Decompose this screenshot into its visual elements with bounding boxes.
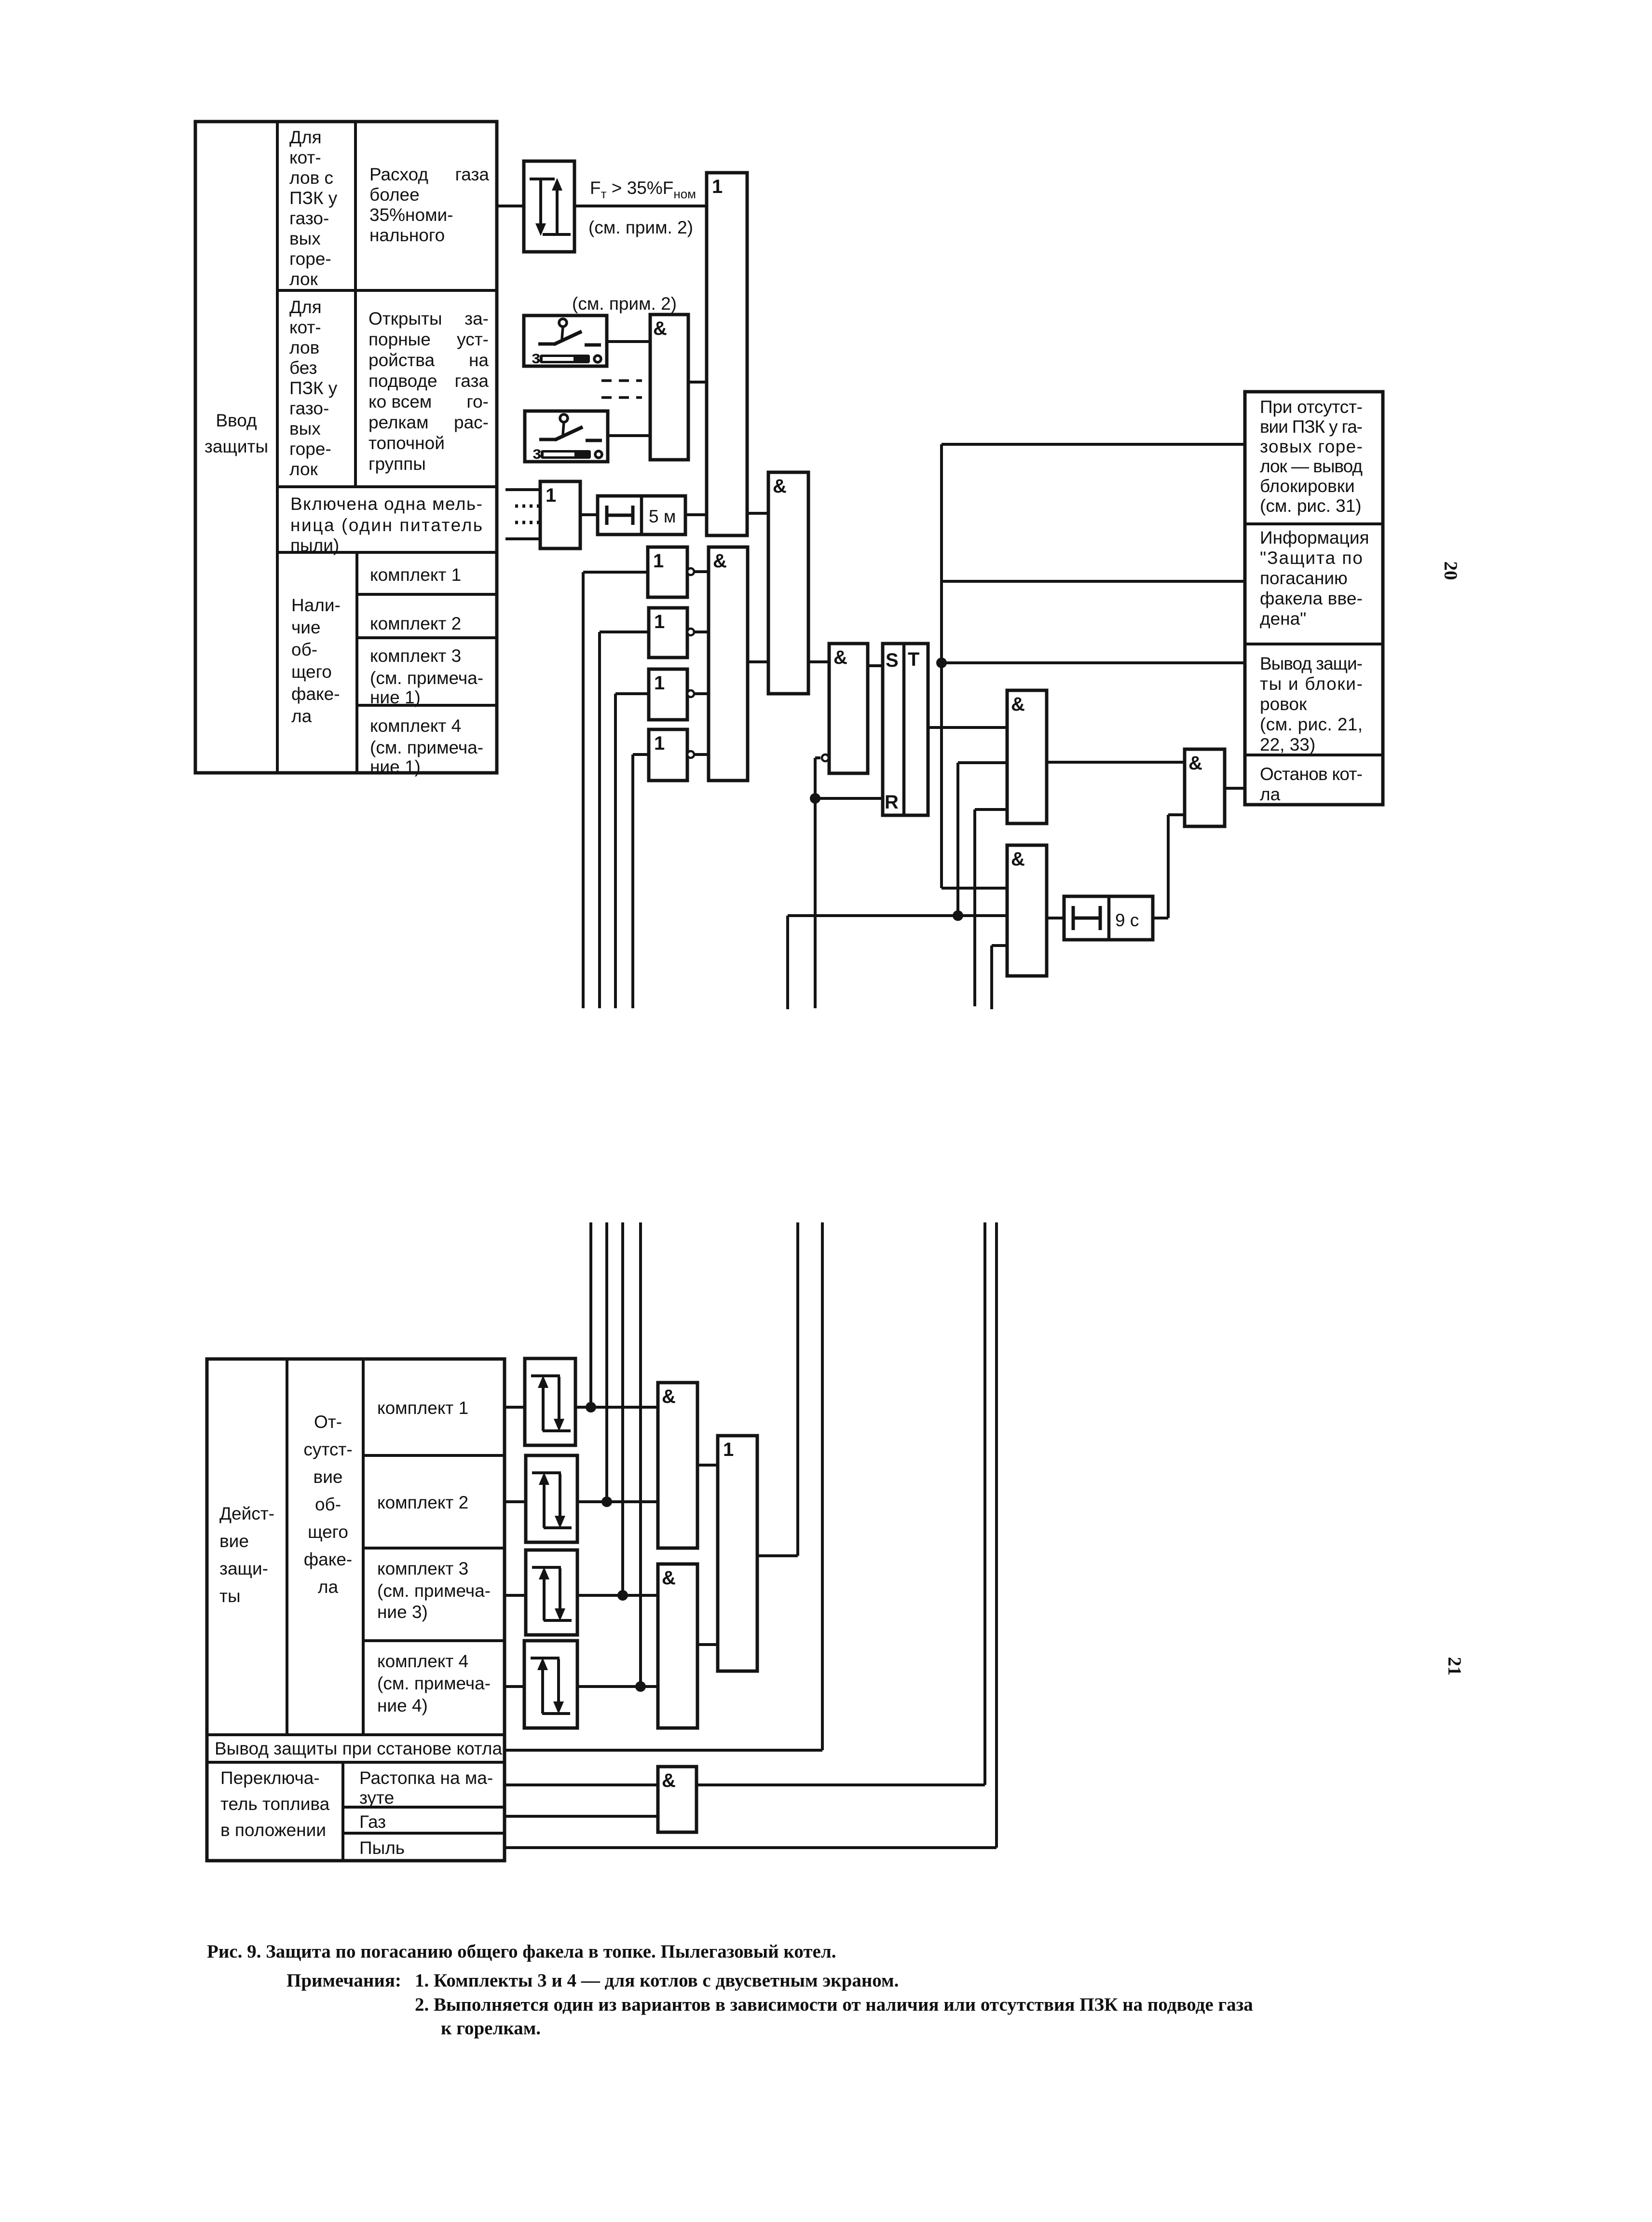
hysteresis element H3 (flame absence) bbox=[526, 1550, 577, 1635]
svg-text:погасанию: погасанию bbox=[1260, 568, 1348, 588]
wire: inhibit net to D7 bubble and R input bbox=[810, 758, 883, 1008]
svg-text:ние 1): ние 1) bbox=[370, 757, 421, 777]
inverter bubble D4.2 bbox=[687, 629, 694, 635]
svg-text:уст-: уст- bbox=[457, 329, 489, 349]
svg-text:газа: газа bbox=[455, 371, 489, 391]
wire: D11 to OR D13 bbox=[697, 1464, 718, 1467]
wire: H1 output with riser to page 20 bbox=[575, 1222, 658, 1413]
svg-text:вие: вие bbox=[219, 1531, 249, 1551]
timer DT2 (9 с delay) bbox=[1064, 896, 1153, 940]
svg-text:Дейст-: Дейст- bbox=[219, 1504, 274, 1523]
valve limit switch SW2 (запорное устройство) bbox=[525, 411, 608, 463]
svg-text:комплект 1: комплект 1 bbox=[370, 565, 461, 585]
wire: flame set 1 net riser bbox=[583, 572, 648, 1008]
wire: flame set 4 net riser bbox=[633, 754, 649, 1008]
wire: Пыль riser to page 20 bbox=[505, 1222, 997, 1848]
wire: D6 output to AND D7 bbox=[808, 660, 829, 663]
svg-text:"Защита по: "Защита по bbox=[1260, 548, 1363, 568]
svg-text:более: более bbox=[369, 185, 420, 205]
wire: hysteresis output to OR gate D1 bbox=[574, 205, 707, 207]
svg-text:R: R bbox=[885, 792, 899, 813]
svg-text:(см. примеча-: (см. примеча- bbox=[377, 1581, 491, 1601]
svg-text:T: T bbox=[908, 649, 919, 670]
wire: комплект 4 to hysteresis bbox=[505, 1685, 524, 1688]
svg-text:5 м: 5 м bbox=[649, 507, 676, 526]
wire: SW2 to AND gate D2 bbox=[607, 434, 650, 437]
wire: D4.3 to AND D5 bbox=[694, 692, 709, 695]
svg-text:го-: го- bbox=[466, 392, 489, 411]
svg-text:Ввод: Ввод bbox=[216, 411, 257, 430]
svg-text:1: 1 bbox=[654, 611, 665, 632]
svg-text:(см. примеча-: (см. примеча- bbox=[370, 668, 483, 688]
AND gate D2 (all valves open) bbox=[650, 315, 688, 460]
wire: Растопка на мазуте to AND D14 bbox=[505, 1783, 658, 1786]
wire: mill-running inputs to OR gate D3 bbox=[505, 490, 541, 539]
wire: H2 output with riser to page 20 bbox=[577, 1222, 658, 1507]
svg-text:Нали-: Нали- bbox=[291, 595, 341, 615]
OR gate D13 (1) bbox=[718, 1436, 757, 1671]
svg-text:21: 21 bbox=[1444, 1657, 1465, 1676]
svg-text:нального: нального bbox=[369, 225, 445, 245]
AND gate D9 bbox=[1007, 845, 1047, 976]
svg-text:защиты: защиты bbox=[205, 437, 268, 456]
wire: H4 output with riser to page 20 bbox=[577, 1222, 658, 1692]
NOT gate D4.4 (1) bbox=[649, 729, 687, 781]
AND gate D10 (boiler stop) bbox=[1185, 749, 1225, 826]
svg-text:ко всем: ко всем bbox=[369, 392, 432, 411]
svg-text:ройства: ройства bbox=[369, 350, 435, 370]
svg-text:35%номи-: 35%номи- bbox=[369, 205, 453, 225]
svg-text:Вывод защи-: Вывод защи- bbox=[1260, 654, 1363, 673]
svg-text:комплект 4: комплект 4 bbox=[377, 1651, 468, 1671]
valve limit switch SW1 (запорное устройство) bbox=[524, 315, 607, 367]
AND gate D6 bbox=[768, 472, 808, 694]
svg-text:комплект 4: комплект 4 bbox=[370, 716, 461, 736]
svg-text:комплект 2: комплект 2 bbox=[377, 1493, 468, 1512]
svg-text:S: S bbox=[886, 650, 899, 671]
wire: H3 output with riser to page 20 bbox=[577, 1222, 658, 1601]
inverter bubble on D7 lower input bbox=[822, 754, 829, 761]
svg-text:Информация: Информация bbox=[1260, 528, 1369, 548]
svg-text:ПЗК у: ПЗК у bbox=[289, 378, 338, 398]
svg-text:22, 33): 22, 33) bbox=[1260, 735, 1315, 754]
svg-text:&: & bbox=[833, 647, 847, 668]
wire: gas flow signal to hysteresis element bbox=[497, 205, 524, 207]
AND gate D11 (sets 1,2) bbox=[658, 1383, 697, 1548]
svg-text:комплект 1: комплект 1 bbox=[377, 1398, 468, 1418]
svg-text:топочной: топочной bbox=[369, 433, 445, 453]
svg-text:ПЗК у: ПЗК у bbox=[289, 188, 338, 208]
wire: Газ to AND D14 bbox=[505, 1815, 658, 1818]
svg-text:з: з bbox=[532, 347, 540, 367]
svg-text:(см. рис. 21,: (см. рис. 21, bbox=[1260, 714, 1363, 734]
svg-text:релкам: релкам bbox=[369, 412, 429, 432]
wire: D3 to timer 5м bbox=[580, 513, 598, 516]
svg-text:&: & bbox=[1188, 753, 1202, 774]
wire: D13 output riser to page 20 bbox=[757, 1222, 798, 1556]
svg-text:&: & bbox=[662, 1770, 676, 1791]
svg-text:рас-: рас- bbox=[454, 412, 489, 432]
wire: D12 to OR D13 bbox=[697, 1643, 718, 1646]
svg-text:подводе: подводе bbox=[369, 371, 437, 391]
svg-text:Для: Для bbox=[289, 297, 322, 317]
svg-text:1: 1 bbox=[546, 485, 556, 506]
svg-text:тель топлива: тель топлива bbox=[220, 1794, 330, 1814]
OR gate D3 (1, одна мельница) bbox=[540, 481, 580, 549]
svg-text:Пыль: Пыль bbox=[359, 1838, 405, 1858]
svg-text:лок: лок bbox=[289, 459, 318, 479]
svg-text:комплект 3: комплект 3 bbox=[377, 1559, 468, 1578]
wire: flame set 2 net riser bbox=[600, 632, 649, 1008]
svg-text:лок — вывод: лок — вывод bbox=[1260, 456, 1363, 476]
wire: D14 output riser to page 20 bbox=[696, 1222, 985, 1785]
svg-text:&: & bbox=[662, 1567, 676, 1589]
inverter bubble D4.1 bbox=[687, 568, 694, 575]
AND gate D12 (sets 3,4) bbox=[658, 1564, 697, 1728]
hysteresis element H2 (flame absence) bbox=[526, 1455, 577, 1542]
svg-text:в положении: в положении bbox=[220, 1820, 326, 1840]
wire: D8 output to AND D10 bbox=[1047, 761, 1185, 764]
svg-text:газо-: газо- bbox=[289, 398, 329, 418]
svg-text:&: & bbox=[653, 318, 667, 339]
svg-text:зуте: зуте bbox=[359, 1788, 394, 1808]
wire: trip net vertical with taps to message boxes bbox=[936, 444, 1245, 888]
AND gate D5 (no flame on all sets) bbox=[709, 547, 748, 781]
svg-text:дена": дена" bbox=[1260, 609, 1306, 629]
svg-text:лок: лок bbox=[289, 269, 318, 289]
svg-text:об-: об- bbox=[315, 1495, 341, 1514]
svg-text:9 с: 9 с bbox=[1115, 910, 1139, 930]
svg-text:ла: ла bbox=[318, 1577, 339, 1597]
svg-text:факе-: факе- bbox=[304, 1550, 353, 1569]
wire: комплект 1 to hysteresis bbox=[505, 1406, 525, 1409]
svg-text:Для: Для bbox=[289, 127, 322, 147]
svg-text:1: 1 bbox=[723, 1439, 734, 1460]
svg-text:Растопка на ма-: Растопка на ма- bbox=[359, 1768, 493, 1788]
svg-text:факе-: факе- bbox=[291, 684, 340, 704]
wire: dashed continuation marks (more valves) bbox=[601, 381, 642, 398]
wire: flame set 3 net riser bbox=[615, 694, 649, 1008]
wire: комплект 3 to hysteresis bbox=[505, 1594, 526, 1597]
svg-text:&: & bbox=[662, 1386, 676, 1407]
svg-text:вых: вых bbox=[289, 229, 321, 248]
svg-text:Вывод защиты при сстанове котл: Вывод защиты при сстанове котла bbox=[215, 1739, 502, 1758]
svg-text:кот-: кот- bbox=[289, 317, 321, 337]
svg-text:на: на bbox=[469, 350, 489, 370]
NOT gate D4.1 (1) bbox=[648, 547, 687, 597]
wire: D4.4 to AND D5 bbox=[694, 753, 709, 756]
svg-text:ла: ла bbox=[291, 706, 312, 726]
svg-text:к горелкам.: к горелкам. bbox=[441, 2018, 541, 2039]
wire: SW1 to AND gate D2 bbox=[607, 340, 650, 343]
svg-text:1: 1 bbox=[654, 733, 665, 754]
svg-text:2. Выполняется один из вариант: 2. Выполняется один из вариантов в завис… bbox=[415, 1994, 1253, 2015]
wire: T output to AND D8 bbox=[928, 726, 1007, 729]
svg-text:(см. примеча-: (см. примеча- bbox=[370, 738, 483, 757]
svg-text:комплект 3: комплект 3 bbox=[370, 646, 461, 666]
hysteresis threshold element H1 (расход газа) bbox=[524, 161, 574, 252]
svg-text:защи-: защи- bbox=[219, 1559, 268, 1578]
svg-text:щего: щего bbox=[308, 1522, 348, 1542]
svg-text:&: & bbox=[713, 550, 727, 572]
svg-text:без: без bbox=[289, 358, 317, 378]
svg-text:Останов кот-: Останов кот- bbox=[1260, 764, 1363, 784]
wire: D1 output to AND D6 bbox=[747, 512, 768, 515]
svg-text:&: & bbox=[1011, 849, 1025, 870]
wire: D9 output to timer 9с bbox=[1047, 917, 1064, 919]
svg-text:щего: щего bbox=[291, 662, 332, 682]
svg-text:сутст-: сутст- bbox=[303, 1440, 352, 1459]
svg-text:ровок: ровок bbox=[1260, 694, 1307, 714]
svg-text:вии ПЗК у га-: вии ПЗК у га- bbox=[1260, 417, 1363, 437]
svg-text:группы: группы bbox=[369, 454, 426, 474]
wire: Вывод защиты при останове котла riser bbox=[505, 1222, 822, 1750]
svg-text:1: 1 bbox=[712, 176, 723, 197]
svg-text:блокировки: блокировки bbox=[1260, 476, 1355, 496]
svg-text:вых: вых bbox=[289, 419, 321, 439]
svg-text:горе-: горе- bbox=[289, 439, 331, 459]
svg-text:лов с: лов с bbox=[289, 168, 333, 188]
svg-text:ты: ты bbox=[219, 1586, 241, 1606]
wire: timer DT1 to OR gate D1 bbox=[685, 513, 707, 516]
svg-text:ние 4): ние 4) bbox=[377, 1696, 428, 1715]
svg-text:порные: порные bbox=[369, 329, 431, 349]
svg-text:комплект 2: комплект 2 bbox=[370, 614, 461, 633]
svg-text:з: з bbox=[532, 443, 541, 463]
svg-text:От-: От- bbox=[314, 1412, 342, 1432]
svg-text:за-: за- bbox=[464, 309, 489, 329]
table: Действие защиты (protection actions) bbox=[207, 1359, 505, 1861]
table: Ввод защиты (input conditions) bbox=[195, 122, 497, 777]
svg-text:вие: вие bbox=[314, 1467, 343, 1487]
inverter bubble D4.3 bbox=[687, 690, 694, 697]
svg-text:Включена одна мель-: Включена одна мель- bbox=[290, 494, 482, 514]
svg-text:&: & bbox=[1011, 694, 1025, 715]
wire: D7 output to S input bbox=[868, 664, 883, 667]
svg-text:об-: об- bbox=[291, 640, 317, 659]
svg-text:1: 1 bbox=[653, 550, 664, 572]
svg-text:(см. примеча-: (см. примеча- bbox=[377, 1673, 491, 1693]
svg-text:Fт > 35%Fном: Fт > 35%Fном bbox=[590, 178, 696, 201]
wire: long common net into AND D9 bbox=[788, 916, 1007, 1009]
svg-text:20: 20 bbox=[1440, 562, 1461, 580]
svg-text:кот-: кот- bbox=[289, 148, 321, 167]
svg-text:пыли): пыли) bbox=[290, 535, 339, 555]
svg-text:лов: лов bbox=[289, 338, 319, 357]
wire: D4.1 to AND D5 bbox=[694, 570, 709, 573]
svg-text:Примечания:: Примечания: bbox=[287, 1970, 401, 1991]
hysteresis element H1 (flame absence) bbox=[525, 1358, 575, 1445]
wire: third input of D8 from below bbox=[975, 809, 1007, 1006]
wire: D2 output to OR gate D1 bbox=[688, 381, 707, 384]
svg-text:газа: газа bbox=[455, 165, 490, 184]
wire: D10 output to Останов котла bbox=[1225, 787, 1245, 790]
wire: комплект 2 to hysteresis bbox=[505, 1500, 526, 1503]
NOT gate D4.2 (1) bbox=[649, 608, 687, 658]
svg-text:ты и блоки-: ты и блоки- bbox=[1260, 674, 1363, 694]
svg-text:ние 1): ние 1) bbox=[370, 687, 421, 707]
wire: D5 output to AND D6 bbox=[748, 660, 768, 663]
inverter bubble D4.4 bbox=[687, 751, 694, 758]
svg-text:Рис. 9. Защита по погасанию об: Рис. 9. Защита по погасанию общего факел… bbox=[207, 1941, 836, 1962]
svg-text:(см. прим. 2): (см. прим. 2) bbox=[588, 218, 693, 237]
OR gate D1 (1) bbox=[707, 173, 747, 535]
svg-text:(см. прим. 2): (см. прим. 2) bbox=[572, 294, 677, 314]
svg-text:1. Комплекты 3 и 4 — для котло: 1. Комплекты 3 и 4 — для котлов с двусве… bbox=[415, 1970, 899, 1991]
svg-text:ла: ла bbox=[1260, 784, 1281, 804]
caption: figure title and notes bbox=[207, 1941, 1253, 2039]
svg-text:ние 3): ние 3) bbox=[377, 1602, 428, 1622]
AND gate D8 bbox=[1007, 690, 1047, 823]
wire: DT2 output up to AND D10 bbox=[1153, 815, 1185, 918]
timer DT1 (5 м delay) bbox=[598, 496, 685, 535]
svg-text:1: 1 bbox=[654, 672, 665, 694]
NOT gate D4.3 (1) bbox=[649, 669, 687, 720]
AND gate D14 (fuel selector) bbox=[658, 1767, 696, 1832]
wire: D4.2 to AND D5 bbox=[694, 631, 709, 633]
svg-text:Расход: Расход bbox=[369, 165, 428, 184]
AND gate D7 (set trigger) bbox=[829, 644, 868, 773]
svg-text:&: & bbox=[773, 476, 787, 497]
wire: third input of D9 from below bbox=[992, 946, 1007, 1009]
svg-text:зовых горе-: зовых горе- bbox=[1260, 437, 1363, 456]
svg-text:газо-: газо- bbox=[289, 208, 329, 228]
svg-text:Газ: Газ bbox=[359, 1812, 386, 1832]
svg-text:чие: чие bbox=[291, 617, 321, 637]
svg-text:горе-: горе- bbox=[289, 249, 331, 269]
svg-text:(см. рис. 31): (см. рис. 31) bbox=[1260, 496, 1362, 516]
svg-text:Переключа-: Переключа- bbox=[220, 1768, 320, 1788]
svg-text:При отсутст-: При отсутст- bbox=[1260, 397, 1363, 417]
table: output actions/messages bbox=[1245, 392, 1383, 805]
hysteresis element H4 (flame absence) bbox=[524, 1641, 577, 1728]
svg-text:факела вве-: факела вве- bbox=[1260, 589, 1363, 608]
wire: lower input of D8 from common net bbox=[953, 763, 1007, 921]
svg-text:ница (один питатель: ница (один питатель bbox=[290, 515, 482, 535]
flip-flop SB1 (S/T/R trigger) bbox=[883, 644, 928, 815]
svg-text:Открыты: Открыты bbox=[369, 309, 442, 329]
